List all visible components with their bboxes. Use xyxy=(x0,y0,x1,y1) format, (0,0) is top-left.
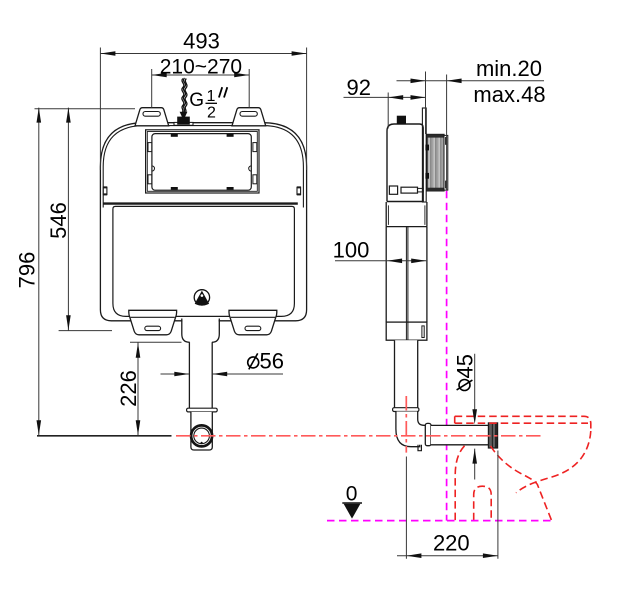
svg-text:max.48: max.48 xyxy=(473,82,545,107)
svg-text:493: 493 xyxy=(183,29,220,54)
svg-text:1: 1 xyxy=(207,88,216,105)
svg-text:56: 56 xyxy=(260,349,284,374)
svg-text:G: G xyxy=(189,90,204,111)
svg-text:45: 45 xyxy=(452,354,477,378)
svg-text:min.20: min.20 xyxy=(476,56,542,81)
svg-text:2: 2 xyxy=(207,105,216,122)
svg-text:796: 796 xyxy=(15,252,40,289)
svg-text:100: 100 xyxy=(333,238,370,263)
svg-text:226: 226 xyxy=(116,370,141,407)
svg-text:0: 0 xyxy=(346,482,358,505)
svg-text:220: 220 xyxy=(433,531,470,556)
svg-text:210~270: 210~270 xyxy=(160,56,242,79)
svg-text:92: 92 xyxy=(347,75,371,100)
svg-text:546: 546 xyxy=(46,202,71,239)
